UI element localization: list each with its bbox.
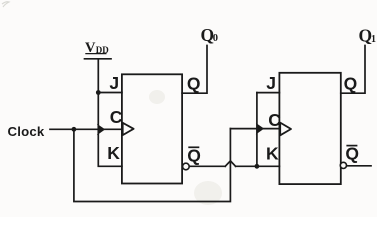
bubble Qbar U2	[340, 162, 346, 168]
clock edge triangle U2	[280, 123, 291, 136]
node Q1 label	[359, 26, 377, 46]
wire J1 input	[98, 92, 122, 94]
wire J2 input	[257, 92, 280, 94]
svg-text:Q: Q	[187, 74, 201, 94]
wire Q2 output to Q1 node	[341, 46, 365, 94]
svg-text:K: K	[266, 144, 279, 164]
svg-text:Q: Q	[344, 74, 358, 94]
scan artifact marks	[2, 2, 9, 7]
svg-text:Q: Q	[187, 145, 201, 165]
svg-text:J: J	[109, 73, 119, 93]
junction J1/VDD	[96, 90, 101, 95]
wire Qbar1 from bubble to hop	[189, 165, 225, 167]
junction J2/K2	[255, 164, 260, 169]
flip-flop U2 body	[279, 73, 340, 184]
arrowhead clock U2	[256, 123, 264, 135]
wire hop over clock riser	[225, 161, 235, 166]
node Q0 label	[201, 25, 219, 45]
wire hop to K2 input	[236, 165, 280, 167]
wire C2 input	[230, 128, 279, 130]
bubble Qbar U1	[183, 163, 190, 170]
wire J2/K2 tie vertical	[256, 93, 258, 167]
wire clock feedback down and along bottom	[74, 129, 231, 202]
svg-text:C: C	[268, 110, 281, 130]
flip-flop U1 body	[122, 74, 182, 183]
pin Qbar of U1	[187, 145, 201, 165]
clock edge triangle U1	[123, 123, 134, 135]
wire VDD vertical to J1/K1	[98, 59, 122, 167]
svg-text:0: 0	[213, 33, 218, 44]
svg-text:1: 1	[371, 34, 376, 45]
svg-text:K: K	[107, 143, 120, 163]
wire Q1 output to Q0 node	[182, 46, 207, 94]
wire Qbar2 output	[347, 165, 371, 167]
pin Qbar of U2	[345, 143, 359, 163]
svg-text:J: J	[266, 73, 276, 93]
node VDD label	[85, 40, 109, 56]
junction Clock node	[72, 127, 77, 132]
wire Clock input	[50, 128, 122, 130]
VDD rail bar	[85, 58, 112, 60]
svg-text:Clock: Clock	[8, 124, 45, 139]
svg-text:C: C	[110, 107, 123, 127]
arrowhead clock U1	[97, 124, 105, 136]
